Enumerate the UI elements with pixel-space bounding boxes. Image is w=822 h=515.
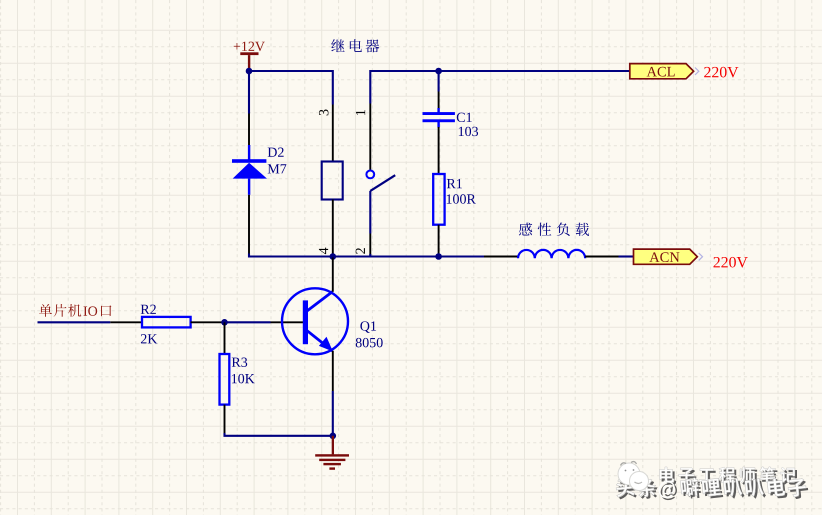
pin number 4	[319, 248, 328, 254]
pin wire Q1 collector (black)	[332, 258, 334, 292]
wire junction to C1 (navy)	[438, 71, 440, 92]
wire D2 anode to lower bus	[249, 254, 484, 257]
resistor R3	[220, 354, 230, 405]
relay coil (inductor body)	[322, 162, 343, 200]
label 单片机IO口	[39, 304, 111, 317]
label C1	[457, 113, 472, 122]
pin wire C1 bottom to R1 top (black)	[438, 127, 440, 174]
label R3	[232, 358, 247, 367]
node VCC junction	[246, 68, 253, 75]
resistor R2	[142, 317, 191, 328]
label ACN	[649, 252, 679, 262]
transistor Q1 body	[282, 288, 348, 354]
relay contact fixed terminal	[366, 171, 374, 179]
label 220V (bottom)	[713, 257, 747, 268]
wire input net (navy)	[38, 321, 111, 323]
Q1 base bar	[303, 300, 308, 344]
label 103	[459, 127, 478, 136]
wire relay contact pin 1 to ACL net	[370, 71, 630, 104]
node base junction	[221, 319, 228, 326]
label M7	[268, 164, 287, 173]
relay contact arm	[370, 175, 395, 191]
resistor R1	[433, 174, 444, 225]
wire emitter to ground node (navy)	[332, 391, 334, 436]
pin wire R2 left (black)	[110, 321, 142, 323]
label R2	[141, 305, 156, 314]
pin wire inductor left (black)	[484, 256, 518, 258]
node emitter/ground junction	[330, 433, 337, 440]
pin 4 wire (black)	[332, 200, 334, 256]
label +12V	[234, 42, 265, 51]
pin number 3	[319, 110, 328, 116]
pin wire inductor right (black)	[585, 256, 618, 258]
pin wire R3 bottom (black)	[224, 405, 226, 435]
power symbol +12V	[240, 52, 258, 71]
port ACN	[634, 249, 703, 264]
wire base junction to Q1 (navy)	[225, 321, 271, 323]
label D2	[268, 148, 284, 157]
pin number 2	[356, 248, 365, 254]
label 继电器	[331, 39, 379, 52]
diode D2 (M7)	[232, 145, 267, 195]
node R1 bottom junction	[435, 253, 442, 260]
label 10K	[232, 374, 255, 383]
pin wire C1 top (black)	[438, 92, 440, 110]
wire VCC to diode D2 cathode	[248, 71, 250, 114]
Q1 emitter arrow	[319, 337, 333, 352]
pin 1 wire (black)	[369, 104, 371, 171]
wire contact pin2 to lower bus	[370, 254, 372, 257]
wire junction down to R3 (black)	[224, 322, 226, 354]
pin wire R2 right (black)	[191, 321, 225, 323]
label 感性负载	[519, 223, 589, 237]
pin wire D2 cathode (black)	[248, 114, 250, 149]
port ACL	[630, 64, 699, 79]
watermark text	[615, 467, 809, 501]
wire contact arm down	[369, 191, 371, 234]
label R1	[447, 179, 462, 188]
inductor L (4 arcs)	[518, 250, 585, 258]
wire to ACN label (navy)	[619, 255, 634, 257]
pin number 1	[356, 110, 365, 115]
pin 3 wire (black)	[332, 105, 334, 162]
label 8050	[356, 338, 383, 347]
Q1 emitter stroke	[306, 330, 333, 351]
pin wire Q1 base (black)	[271, 321, 304, 323]
Q1 collector stroke	[306, 292, 333, 312]
label ACL	[647, 67, 675, 77]
label 100R	[447, 194, 476, 203]
wire R3 to emitter node (navy)	[225, 433, 333, 436]
ground symbol	[315, 436, 349, 470]
node C1 top junction	[435, 68, 442, 75]
label Q1	[360, 321, 376, 333]
pin wire D2 anode (black)	[248, 195, 250, 255]
label 2K	[141, 334, 157, 343]
watermark logo	[618, 462, 649, 491]
capacitor C1	[423, 108, 455, 128]
wire VCC to relay coil pin 3	[249, 71, 333, 105]
node coil pin4 / collector junction	[330, 253, 337, 260]
pin wire R1 bottom (black)	[438, 225, 440, 256]
pin wire Q1 emitter (black)	[332, 351, 334, 391]
label 220V (top)	[704, 67, 738, 78]
pin 2 wire (black)	[369, 234, 371, 256]
